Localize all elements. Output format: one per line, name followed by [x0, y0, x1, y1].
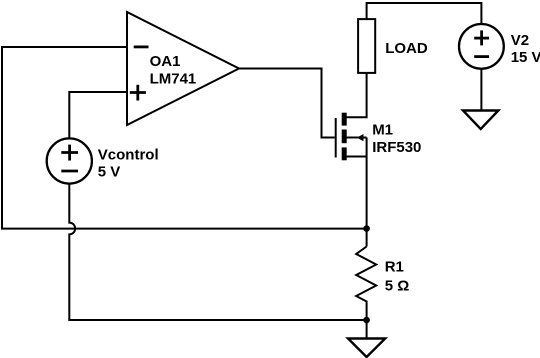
svg-text:5 Ω: 5 Ω	[385, 277, 410, 294]
svg-text:R1: R1	[385, 258, 404, 275]
svg-text:V2: V2	[511, 32, 529, 49]
svg-text:15 V: 15 V	[511, 49, 540, 66]
svg-text:IRF530: IRF530	[372, 139, 421, 156]
svg-text:LM741: LM741	[150, 71, 197, 88]
svg-text:OA1: OA1	[150, 53, 181, 70]
svg-text:M1: M1	[372, 121, 393, 138]
svg-text:LOAD: LOAD	[385, 40, 428, 57]
svg-text:5 V: 5 V	[98, 164, 121, 181]
svg-text:Vcontrol: Vcontrol	[98, 147, 159, 164]
